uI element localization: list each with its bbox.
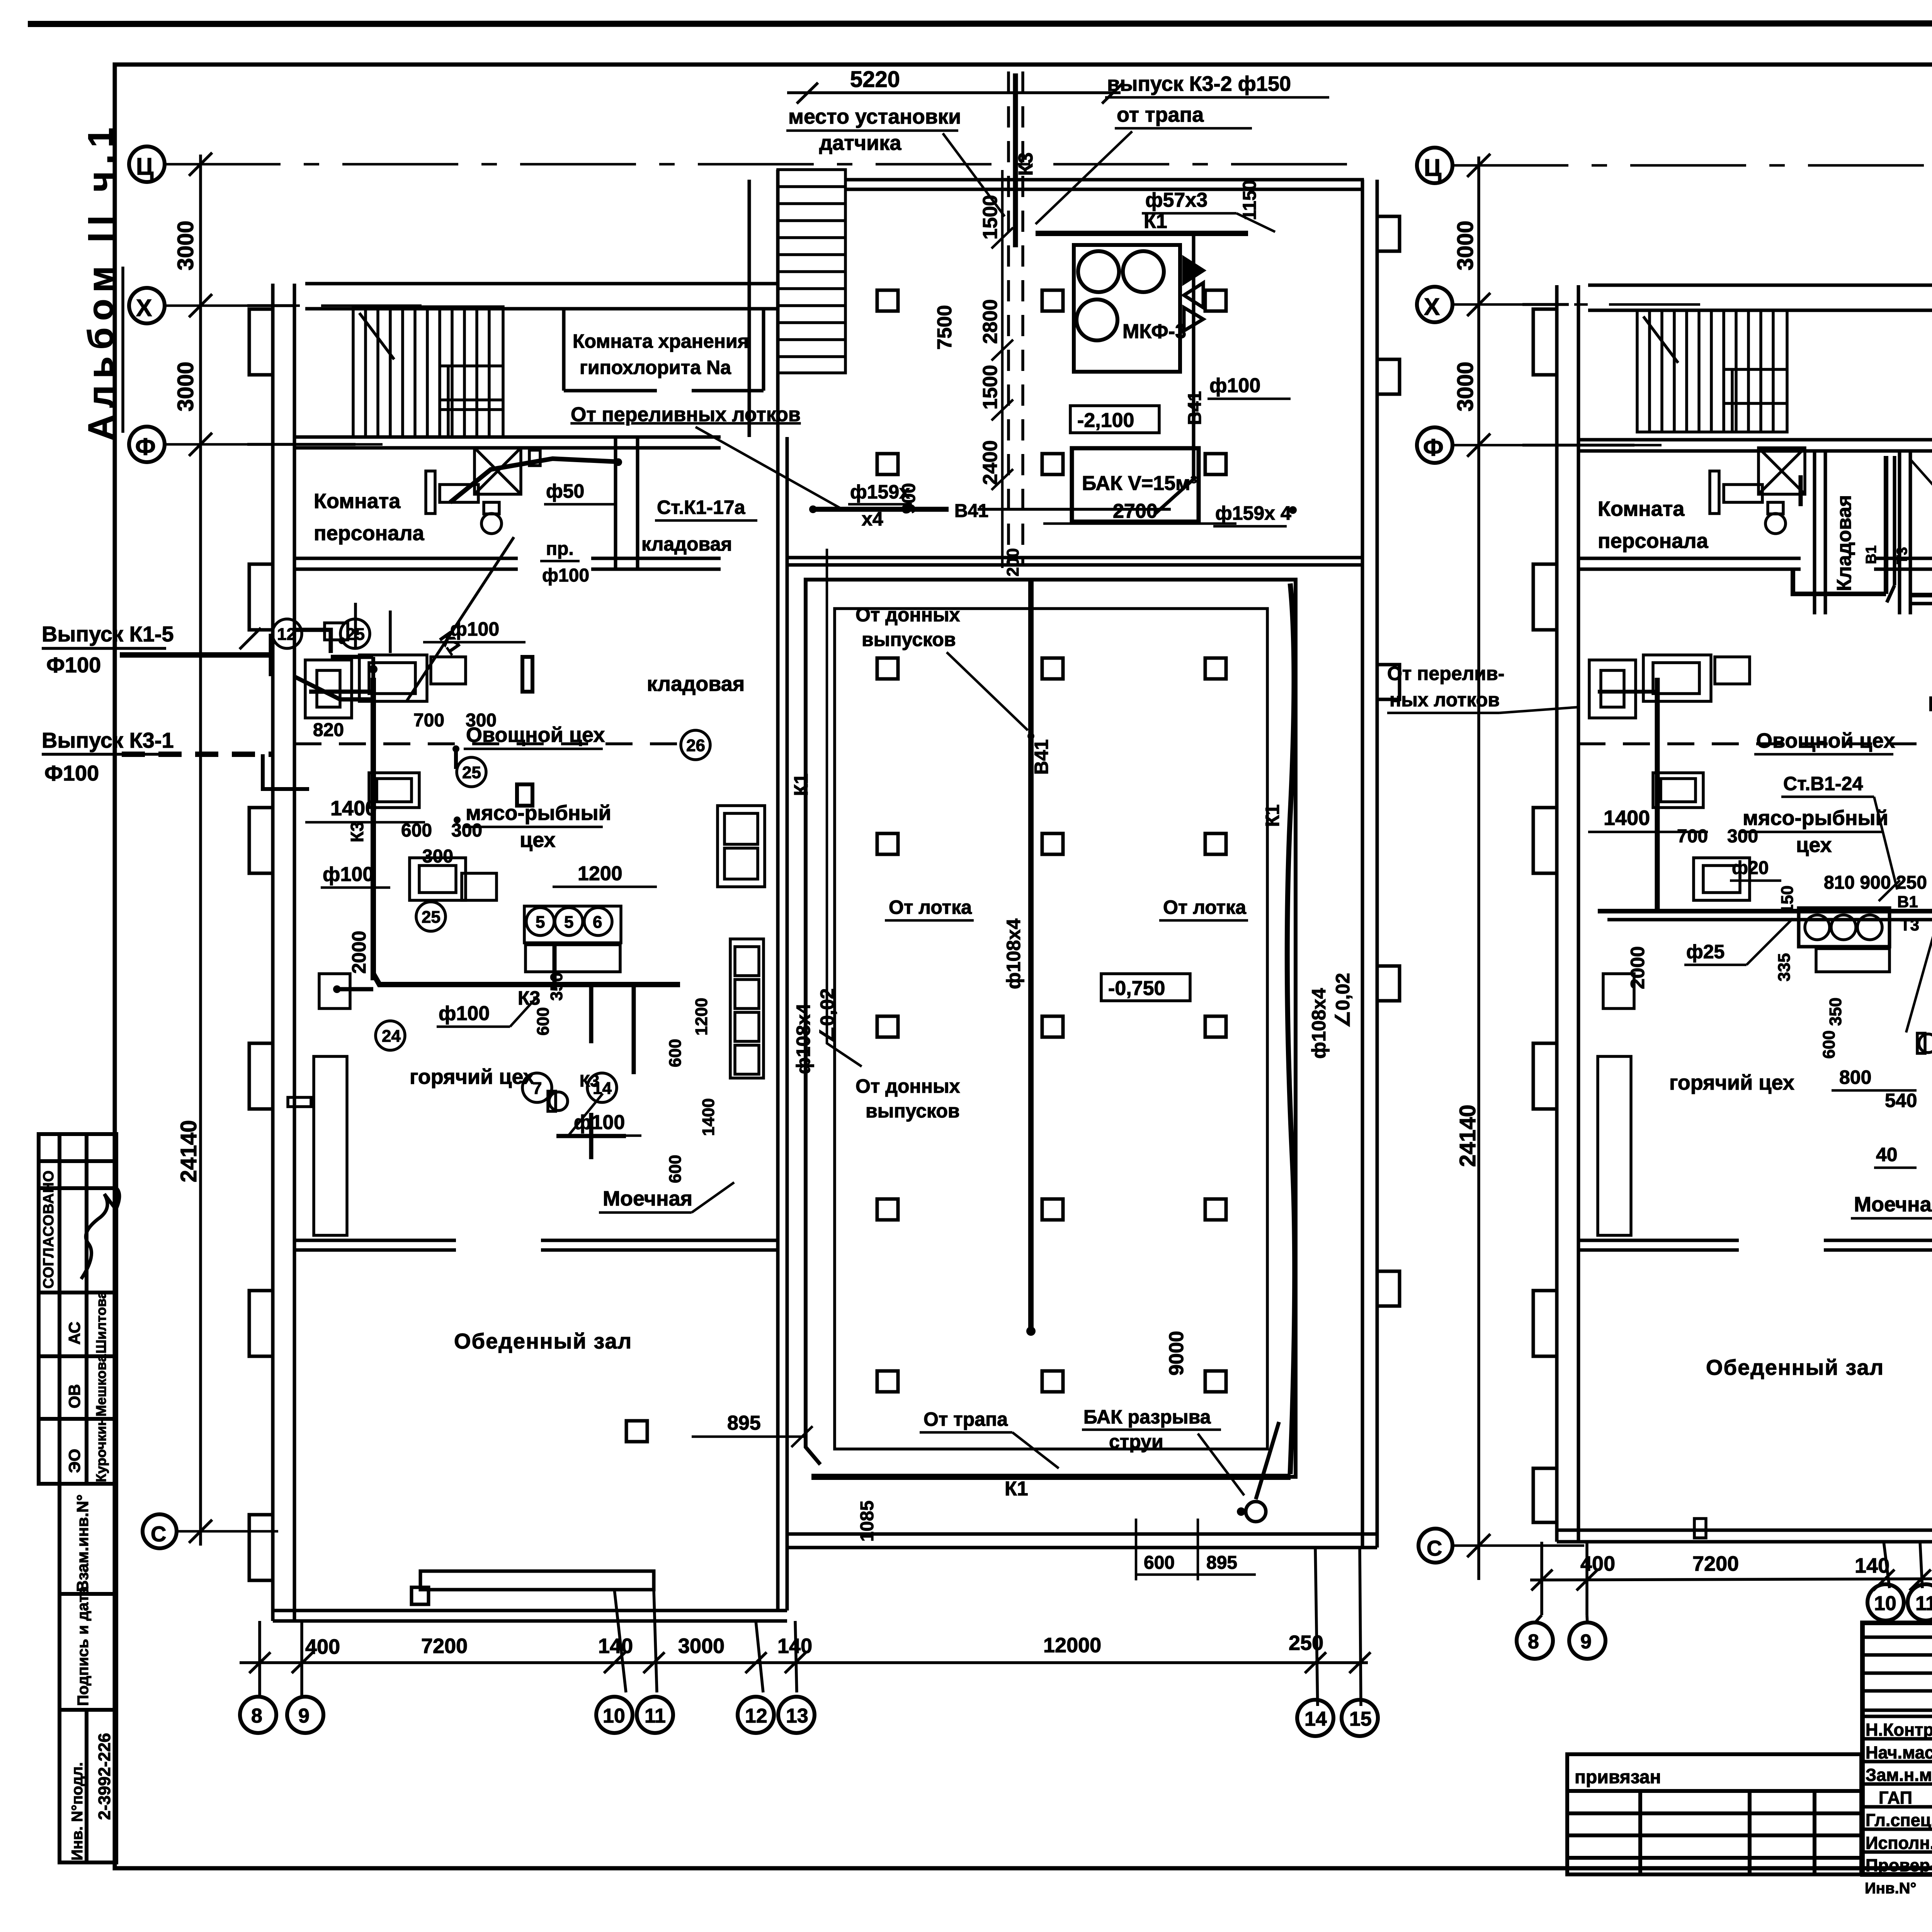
svg-text:ф108х4: ф108х4	[1308, 988, 1330, 1059]
svg-text:Ст.К1-17а: Ст.К1-17а	[657, 497, 746, 518]
svg-text:300: 300	[1727, 826, 1758, 847]
svg-text:цех: цех	[520, 828, 556, 852]
svg-text:6: 6	[593, 913, 602, 932]
axis lines	[165, 164, 1364, 1531]
svg-text:Ф100: Ф100	[46, 653, 101, 677]
thick K3 riser kitchen	[371, 678, 376, 980]
svg-text:13: 13	[786, 1705, 808, 1727]
svg-text:Т3: Т3	[1900, 916, 1919, 934]
V41 header line	[811, 507, 949, 512]
svg-text:ф25: ф25	[1686, 941, 1725, 963]
svg-text:Х: Х	[1424, 294, 1440, 320]
svg-text:К3: К3	[580, 1071, 599, 1090]
dim 2700	[1043, 522, 1236, 525]
svg-text:7200: 7200	[1692, 1552, 1739, 1575]
svg-text:1400: 1400	[699, 1098, 718, 1136]
svg-text:ных лотков: ных лотков	[1389, 689, 1500, 711]
right side K1 drain	[1287, 583, 1294, 1474]
svg-text:10: 10	[1874, 1592, 1896, 1615]
svg-text:25: 25	[462, 763, 481, 782]
WC cluster right plan	[1710, 448, 1805, 534]
main stamp outline	[1862, 1623, 1932, 1874]
svg-text:Провер-: Провер-	[1866, 1855, 1932, 1875]
svg-text:2000: 2000	[348, 931, 370, 974]
svg-text:3000: 3000	[173, 362, 198, 412]
svg-text:14: 14	[1304, 1708, 1327, 1730]
svg-text:1500: 1500	[979, 365, 1002, 410]
svg-text:выпуск К3-2 ф150: выпуск К3-2 ф150	[1107, 72, 1291, 95]
svg-text:Мешкова: Мешкова	[93, 1354, 109, 1417]
wall axis F	[1578, 438, 1932, 442]
svg-text:895: 895	[727, 1412, 761, 1434]
svg-text:25: 25	[422, 908, 440, 927]
bottom axis circles	[240, 1697, 1378, 1736]
svg-text:место установки: место установки	[788, 105, 961, 128]
numbered circles	[272, 619, 710, 1102]
svg-text:горячий цех: горячий цех	[410, 1065, 535, 1088]
valves chain	[1155, 233, 1203, 514]
K1 pipe over MKF	[1036, 231, 1248, 236]
svg-text:15: 15	[1349, 1708, 1372, 1730]
svg-text:Ф100: Ф100	[44, 761, 99, 785]
svg-text:Кладовая: Кладовая	[1928, 692, 1932, 716]
svg-text:8: 8	[251, 1705, 262, 1727]
svg-text:ф108х4: ф108х4	[793, 1003, 814, 1074]
svg-text:ф100: ф100	[450, 618, 499, 640]
machinery dim chain vertical	[992, 170, 1013, 568]
WALLS right plan	[1533, 169, 1932, 1542]
svg-text:гипохлорита Nа: гипохлорита Nа	[580, 357, 731, 378]
kitchen equipment upper	[288, 655, 765, 1235]
left outer wall	[271, 284, 275, 1621]
svg-text:Обеденный зал: Обеденный зал	[454, 1329, 632, 1353]
svg-text:привязан: привязан	[1575, 1767, 1661, 1787]
svg-text:БАК разрыва: БАК разрыва	[1083, 1406, 1211, 1428]
svg-text:24: 24	[382, 1027, 401, 1046]
svg-text:От лотка: От лотка	[889, 896, 972, 918]
svg-text:2700: 2700	[1113, 500, 1158, 522]
svg-text:горячий цех: горячий цех	[1669, 1071, 1794, 1094]
WALLS left plan	[249, 170, 1400, 1621]
svg-text:12: 12	[745, 1705, 767, 1727]
svg-text:С: С	[151, 1522, 166, 1546]
svg-text:Ц: Ц	[1424, 155, 1441, 181]
svg-text:2-3992-226: 2-3992-226	[95, 1733, 114, 1820]
vertical dimension chain x=519	[189, 153, 355, 1546]
svg-text:В1: В1	[1897, 893, 1918, 911]
svg-text:1400: 1400	[1604, 806, 1650, 830]
svg-text:1200: 1200	[692, 998, 711, 1036]
approvals table	[39, 1134, 116, 1484]
svg-text:600: 600	[666, 1039, 685, 1067]
signature table texts	[1866, 1720, 1932, 1875]
svg-text:Комната хранения: Комната хранения	[573, 330, 749, 352]
svg-text:5: 5	[564, 913, 573, 932]
dashed partition of vegetable shop	[294, 742, 692, 745]
svg-text:В1: В1	[1863, 545, 1879, 564]
closet wall vertical	[614, 437, 617, 569]
svg-text:600: 600	[401, 820, 432, 841]
tall stair east	[778, 170, 845, 373]
svg-text:1150: 1150	[1240, 180, 1260, 220]
svg-text:140: 140	[598, 1634, 633, 1658]
wall left of tall stair	[748, 180, 751, 437]
svg-text:БАК V=15м³: БАК V=15м³	[1082, 472, 1197, 495]
machinery/pool divider wall	[787, 556, 1362, 560]
svg-text:-2,100: -2,100	[1077, 409, 1134, 432]
svg-text:К3: К3	[1015, 152, 1037, 176]
svg-text:АС: АС	[65, 1321, 83, 1345]
svg-text:ф100: ф100	[323, 863, 374, 886]
svg-text:Зам.н.м: Зам.н.м	[1866, 1765, 1932, 1785]
level box -2.100	[1070, 406, 1159, 433]
svg-text:Инв. N°подл.: Инв. N°подл.	[69, 1762, 86, 1861]
WC cluster	[426, 448, 540, 534]
svg-text:3000: 3000	[1453, 362, 1478, 412]
svg-text:пр.: пр.	[546, 539, 574, 559]
svg-text:Инв.N°: Инв.N°	[1865, 1880, 1917, 1897]
svg-text:От перелив-: От перелив-	[1387, 663, 1505, 684]
svg-text:Обеденный зал: Обеденный зал	[1706, 1355, 1884, 1379]
svg-text:струи: струи	[1109, 1431, 1163, 1452]
svg-text:200: 200	[1003, 548, 1022, 577]
svg-text:10: 10	[603, 1705, 625, 1727]
svg-text:Ф: Ф	[135, 434, 156, 460]
svg-text:Выпуск К1-5: Выпуск К1-5	[42, 622, 174, 646]
partition below hot shop	[294, 1239, 456, 1242]
center drain stack V41	[1028, 580, 1034, 1329]
dashed partition	[1578, 742, 1932, 745]
svg-text:3000: 3000	[173, 221, 198, 270]
svg-text:2800: 2800	[979, 299, 1002, 344]
svg-text:335: 335	[1775, 953, 1794, 981]
svg-text:400: 400	[1580, 1552, 1615, 1575]
svg-text:кладовая: кладовая	[641, 533, 732, 555]
svg-text:1500: 1500	[979, 195, 1002, 240]
bottom axis circles	[1517, 1584, 1932, 1659]
svg-text:3000: 3000	[1453, 221, 1478, 270]
svg-text:Выпуск К3-1: Выпуск К3-1	[42, 728, 174, 752]
svg-text:5220: 5220	[850, 67, 900, 92]
svg-text:персонала: персонала	[314, 522, 425, 545]
svg-text:700: 700	[413, 710, 444, 731]
equipment upper kitchen right	[1589, 655, 1932, 1235]
signature table grid	[1862, 1623, 1932, 1874]
svg-text:400: 400	[305, 1635, 340, 1658]
svg-text:26: 26	[686, 736, 705, 755]
svg-text:5: 5	[536, 913, 545, 932]
svg-text:Подпись и дата: Подпись и дата	[75, 1586, 92, 1706]
svg-text:Комната: Комната	[314, 490, 401, 513]
top scan line	[31, 23, 1932, 24]
svg-text:От донных: От донных	[855, 1075, 960, 1097]
svg-text:ф57х3: ф57х3	[1145, 189, 1207, 211]
svg-text:810 900 250: 810 900 250	[1824, 872, 1927, 893]
privyazan table	[1567, 1754, 1861, 1874]
svg-text:Нач.мас.: Нач.мас.	[1866, 1743, 1932, 1762]
svg-text:7200: 7200	[421, 1634, 468, 1658]
left outer wall	[1555, 285, 1559, 1542]
K3 dashed risers	[1009, 71, 1023, 564]
svg-text:Комната: Комната	[1598, 497, 1685, 520]
pool hall west wall	[776, 437, 780, 1611]
top wall kitchen	[1588, 284, 1932, 287]
svg-text:∠0,02: ∠0,02	[1332, 973, 1354, 1028]
svg-text:140: 140	[1855, 1554, 1889, 1577]
svg-text:12000: 12000	[1043, 1634, 1101, 1657]
svg-text:ф100: ф100	[1209, 374, 1260, 397]
svg-text:11: 11	[645, 1705, 666, 1727]
svg-text:150: 150	[1778, 886, 1797, 914]
svg-text:СОГЛАСОВАНО: СОГЛАСОВАНО	[41, 1170, 57, 1289]
machinery columns	[877, 290, 1226, 474]
svg-text:820: 820	[313, 720, 344, 740]
partition below hot shop	[1578, 1239, 1739, 1242]
svg-text:От донных: От донных	[855, 604, 960, 626]
svg-text:ф100: ф100	[542, 565, 589, 586]
svg-text:7500: 7500	[934, 305, 956, 350]
svg-text:Курочкин: Курочкин	[93, 1418, 109, 1482]
svg-text:персонала: персонала	[1598, 529, 1709, 553]
wall piers left	[249, 309, 273, 375]
bottom dim line	[1530, 1542, 1932, 1615]
svg-text:Овощной цех: Овощной цех	[1756, 729, 1895, 752]
svg-text:кладовая: кладовая	[647, 672, 745, 696]
svg-text:выпусков: выпусков	[862, 629, 956, 650]
svg-text:600: 600	[534, 1007, 553, 1036]
svg-text:Х: Х	[136, 295, 152, 321]
svg-text:24140: 24140	[176, 1120, 201, 1182]
tank BAK	[1072, 448, 1199, 522]
svg-text:40: 40	[1876, 1144, 1898, 1165]
svg-text:9000: 9000	[1165, 1331, 1188, 1376]
svg-text:140: 140	[777, 1634, 812, 1658]
svg-text:-0,750: -0,750	[1108, 977, 1165, 1000]
svg-text:800: 800	[1839, 1066, 1871, 1088]
svg-text:600: 600	[1144, 1553, 1175, 1573]
svg-text:С: С	[1427, 1536, 1442, 1560]
closet walls	[1813, 451, 1816, 614]
top wall kitchen block	[305, 282, 778, 286]
axis Ts circle	[129, 146, 177, 1548]
svg-text:ЭО: ЭО	[65, 1449, 83, 1473]
svg-text:К1: К1	[1005, 1478, 1028, 1500]
svg-text:ф108х4: ф108х4	[1003, 918, 1024, 989]
thick riser kitchen left	[1655, 678, 1660, 911]
svg-text:В41: В41	[1031, 739, 1052, 775]
svg-text:От лотка: От лотка	[1163, 896, 1247, 918]
svg-text:1085: 1085	[857, 1500, 878, 1542]
svg-text:700: 700	[1677, 826, 1708, 847]
small K3 pipes mid kitchen	[554, 943, 634, 1159]
svg-text:ф50: ф50	[546, 480, 584, 502]
K1 diagonal leader	[406, 537, 514, 701]
MKF-3 unit	[1074, 245, 1180, 372]
svg-text:В41: В41	[954, 501, 988, 521]
signature squiggle	[81, 1186, 119, 1279]
svg-text:От переливных лотков: От переливных лотков	[571, 403, 801, 426]
B1 T3 supply route kitchen	[1793, 456, 1932, 604]
svg-text:Ц: Ц	[136, 153, 153, 180]
svg-text:Ф: Ф	[1423, 434, 1444, 461]
svg-text:8: 8	[1528, 1631, 1539, 1653]
svg-text:К3: К3	[347, 821, 367, 842]
pool basin sewer loop K1	[806, 580, 1296, 1477]
vertical dim chain	[1467, 154, 1634, 1580]
svg-text:Ст.В1-24: Ст.В1-24	[1783, 773, 1863, 794]
wall below personnel room	[294, 557, 518, 560]
svg-text:24140: 24140	[1455, 1105, 1480, 1167]
right outer wall	[1361, 180, 1364, 1548]
axis circles right plan	[1417, 148, 1452, 1563]
svg-text:К1: К1	[1144, 210, 1167, 233]
svg-text:К1: К1	[790, 774, 812, 796]
bottom dimension line	[240, 1548, 1371, 1706]
svg-text:от трапа: от трапа	[1117, 103, 1204, 126]
outlets on left wall	[120, 628, 375, 789]
svg-text:цех: цех	[1796, 833, 1832, 857]
inventory strip	[60, 1484, 116, 1862]
svg-text:895: 895	[1206, 1553, 1237, 1573]
svg-text:ф100: ф100	[574, 1111, 625, 1134]
svg-text:9: 9	[298, 1705, 310, 1727]
svg-text:600: 600	[1820, 1031, 1838, 1059]
svg-text:Кладовая: Кладовая	[1833, 495, 1855, 591]
svg-text:ф100: ф100	[439, 1002, 490, 1025]
svg-text:датчика: датчика	[819, 131, 901, 155]
svg-text:Т3: Т3	[1894, 547, 1910, 564]
svg-text:2400: 2400	[979, 440, 1002, 485]
svg-text:540: 540	[1885, 1090, 1917, 1111]
svg-text:300: 300	[422, 846, 453, 867]
svg-text:К1: К1	[1262, 804, 1283, 827]
bottom wall	[1557, 1529, 1932, 1532]
K3 thick stack	[1013, 73, 1018, 247]
svg-text:Моечная: Моечная	[603, 1187, 692, 1210]
wall below personnel	[1578, 557, 1801, 560]
svg-text:300: 300	[451, 820, 482, 841]
svg-text:250: 250	[1289, 1631, 1323, 1655]
wall on axis F	[294, 435, 721, 439]
svg-text:Гл.спец.: Гл.спец.	[1866, 1810, 1932, 1830]
svg-text:Овощной цех: Овощной цех	[466, 723, 605, 747]
svg-text:12: 12	[277, 625, 296, 644]
svg-text:ф159х 4: ф159х 4	[1215, 502, 1291, 524]
top wall pool block	[845, 178, 1364, 182]
svg-text:Альбом II ч.1: Альбом II ч.1	[81, 121, 121, 440]
extra kitchen inlet piping left plan	[296, 603, 390, 657]
svg-text:1200: 1200	[578, 862, 622, 885]
svg-text:Моечная: Моечная	[1854, 1193, 1932, 1216]
svg-text:600: 600	[666, 1155, 685, 1183]
svg-text:ОВ: ОВ	[65, 1384, 83, 1408]
svg-text:мясо-рыбный: мясо-рыбный	[466, 801, 611, 825]
svg-text:выпусков: выпусков	[866, 1100, 960, 1122]
svg-text:В41: В41	[1185, 391, 1205, 425]
axis lines	[1452, 165, 1932, 1546]
svg-text:От трапа: От трапа	[923, 1408, 1008, 1430]
main B1 T3 run kitchen	[1598, 909, 1932, 913]
kitchen stair	[1637, 310, 1787, 432]
svg-text:ГАП: ГАП	[1879, 1788, 1912, 1808]
pool columns	[877, 658, 1226, 1392]
svg-text:Н.Контр.: Н.Контр.	[1866, 1720, 1932, 1740]
misc equip pipes near veg shop	[373, 657, 532, 806]
svg-text:Взам.инв.N°: Взам.инв.N°	[73, 1494, 92, 1592]
svg-text:х4: х4	[862, 508, 883, 530]
svg-text:9: 9	[1580, 1631, 1592, 1653]
svg-text:Шилтова: Шилтова	[93, 1291, 109, 1354]
svg-text:3000: 3000	[678, 1634, 724, 1658]
bottom wall pool block on axis C	[787, 1532, 1377, 1536]
top dim 5220	[787, 91, 1121, 94]
hypochlorite room	[564, 309, 764, 391]
svg-text:ф159х: ф159х	[850, 481, 910, 503]
stair kitchen west	[353, 307, 503, 437]
svg-text:МКФ-3: МКФ-3	[1122, 320, 1186, 343]
svg-text:11: 11	[1915, 1592, 1932, 1615]
svg-text:мясо-рыбный: мясо-рыбный	[1743, 806, 1888, 830]
svg-text:1400: 1400	[330, 797, 377, 820]
svg-text:2000: 2000	[1627, 946, 1648, 989]
sink row right plan	[1799, 908, 1889, 947]
svg-text:350: 350	[1826, 998, 1845, 1026]
svg-text:Исполн.: Исполн.	[1866, 1833, 1932, 1853]
bottom wall dining block	[273, 1609, 787, 1612]
